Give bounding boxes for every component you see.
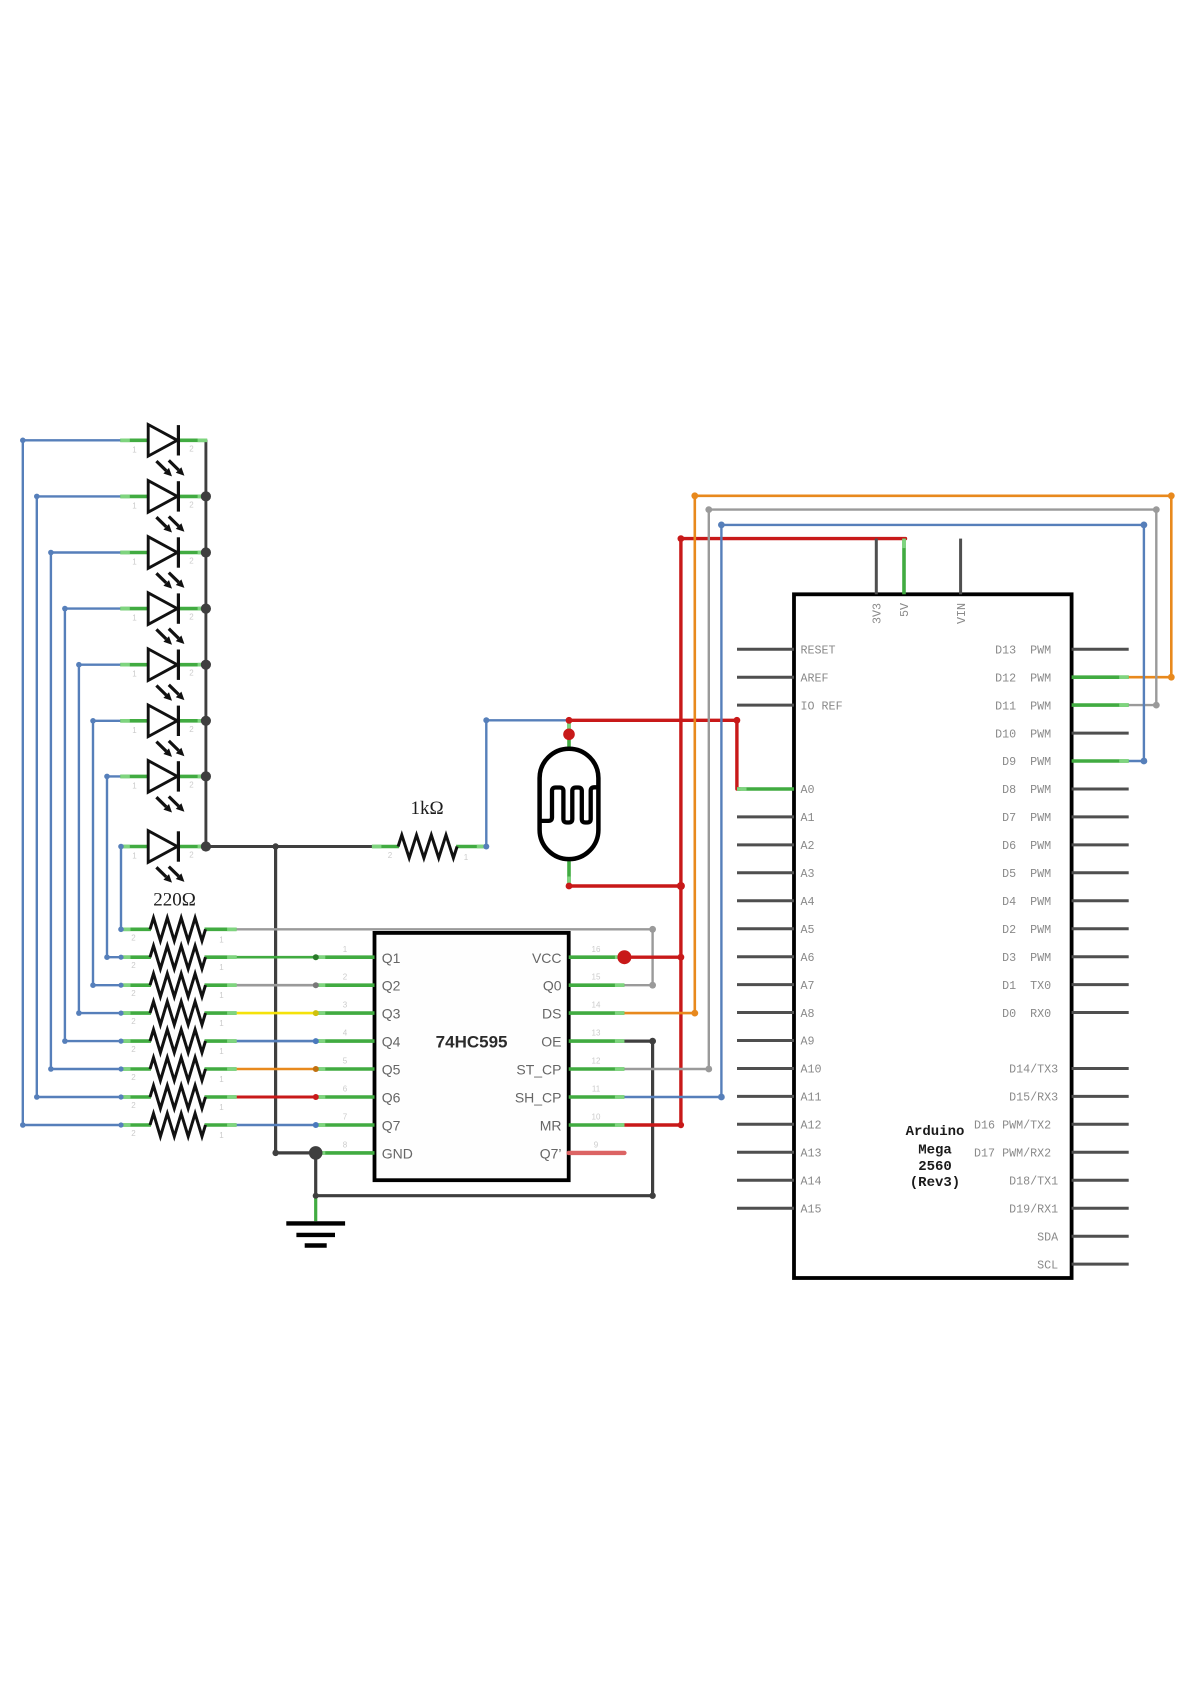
svg-text:3V3: 3V3	[871, 603, 885, 624]
svg-text:A4: A4	[801, 895, 815, 909]
wire LDR top to A0 (red)	[569, 720, 740, 789]
svg-text:D16 PWM/TX2: D16 PWM/TX2	[974, 1119, 1058, 1133]
svg-text:RESET: RESET	[801, 643, 836, 657]
svg-text:1: 1	[132, 726, 137, 735]
svg-text:1: 1	[132, 781, 137, 790]
svg-text:16: 16	[592, 945, 601, 954]
svg-text:2: 2	[343, 973, 348, 982]
arduino pin A11	[737, 1091, 822, 1105]
arduino pin D17 PWM/RX2	[974, 1147, 1129, 1161]
svg-text:1: 1	[219, 935, 224, 944]
svg-text:A2: A2	[801, 839, 815, 853]
svg-text:D0 RX0: D0 RX0	[1002, 1007, 1058, 1021]
wire LED8 anode to R1 (blue)	[119, 847, 122, 930]
arduino pin A1	[737, 811, 815, 825]
wire OE to ground net (dark)	[316, 1041, 653, 1196]
svg-text:2: 2	[131, 1017, 136, 1026]
pin 14 DS	[542, 1001, 624, 1022]
svg-text:2: 2	[388, 851, 393, 860]
wire LED4 anode to R5 (blue)	[65, 609, 121, 1042]
wire 5V power net (red): 5V pin - VCC - MR - LDR bottom	[569, 539, 906, 1125]
svg-text:A13: A13	[801, 1147, 822, 1161]
arduino pin IO REF	[737, 699, 843, 713]
svg-text:D6 PWM: D6 PWM	[1002, 839, 1058, 853]
svg-text:SDA: SDA	[1037, 1230, 1059, 1244]
arduino pin A8	[737, 1007, 815, 1021]
svg-text:Mega: Mega	[918, 1143, 952, 1159]
svg-text:D17 PWM/RX2: D17 PWM/RX2	[974, 1147, 1058, 1161]
resistor R3 220Ω	[121, 974, 237, 1001]
arduino pin A4	[737, 895, 815, 909]
svg-text:OE: OE	[541, 1034, 561, 1050]
svg-text:Q3: Q3	[382, 1006, 401, 1022]
arduino pin A5	[737, 923, 815, 937]
svg-text:1: 1	[343, 945, 348, 954]
svg-text:5: 5	[343, 1057, 348, 1066]
svg-text:9: 9	[594, 1140, 599, 1149]
svg-text:1: 1	[219, 1019, 224, 1028]
wire R5 to Q4 (#567fba)	[237, 1040, 316, 1043]
svg-text:1: 1	[464, 853, 469, 862]
arduino pin D2 PWM	[1002, 923, 1129, 937]
arduino pin D12 PWM	[995, 671, 1129, 685]
junction dots: OE net	[649, 1038, 656, 1199]
arduino pin D14/TX3	[1009, 1063, 1129, 1077]
arduino pin A9	[737, 1035, 815, 1049]
svg-text:1: 1	[132, 852, 137, 861]
pin 11 SH_CP	[515, 1085, 625, 1106]
svg-text:A0: A0	[801, 783, 815, 797]
wire R3 to Q2 (#9a9a9a)	[237, 984, 316, 987]
svg-text:2: 2	[131, 989, 136, 998]
svg-text:SCL: SCL	[1037, 1258, 1058, 1272]
wire ST_CP to D11 (gray)	[624, 510, 1156, 1069]
arduino pin VIN	[955, 539, 969, 624]
svg-text:1: 1	[219, 963, 224, 972]
svg-text:13: 13	[592, 1029, 601, 1038]
svg-text:1: 1	[219, 1047, 224, 1056]
svg-text:A10: A10	[801, 1063, 822, 1077]
resistor R7 220Ω	[121, 1086, 237, 1113]
svg-text:VCC: VCC	[532, 950, 562, 966]
arduino pin D13 PWM	[995, 643, 1129, 657]
arduino pin D3 PWM	[1002, 951, 1129, 965]
arduino pin D7 PWM	[1002, 811, 1129, 825]
junction dots: Q0 gray net	[649, 926, 656, 989]
svg-text:1: 1	[219, 991, 224, 1000]
arduino pin D4 PWM	[1002, 895, 1129, 909]
arduino pin D19/RX1	[1009, 1202, 1129, 1216]
svg-text:Q0: Q0	[543, 978, 562, 994]
svg-text:IO REF: IO REF	[801, 699, 843, 713]
svg-text:A5: A5	[801, 923, 815, 937]
arduino pin RESET	[737, 643, 836, 657]
svg-text:D13 PWM: D13 PWM	[995, 643, 1058, 657]
pin 8 GND	[316, 1140, 413, 1161]
svg-text:D4 PWM: D4 PWM	[1002, 895, 1058, 909]
svg-text:GND: GND	[382, 1145, 413, 1161]
svg-text:D1 TX0: D1 TX0	[1002, 979, 1058, 993]
svg-text:1: 1	[219, 1075, 224, 1084]
junction dots: LED cathode bus	[201, 491, 211, 851]
svg-text:A1: A1	[801, 811, 815, 825]
arduino pin D5 PWM	[1002, 867, 1129, 881]
wire LED6 anode to R3 (blue)	[93, 721, 121, 985]
svg-text:2: 2	[189, 500, 194, 509]
svg-text:2: 2	[131, 961, 136, 970]
pin 13 OE	[541, 1029, 624, 1050]
pin 4 Q4	[316, 1029, 401, 1050]
wire R8 to Q7 (#567fba)	[237, 1124, 316, 1127]
module Arduino Mega 2560 (Rev3)	[794, 594, 1072, 1278]
LED4	[120, 593, 207, 645]
arduino pin D1 TX0	[1002, 979, 1129, 993]
svg-text:D10 PWM: D10 PWM	[995, 727, 1058, 741]
svg-text:4: 4	[343, 1029, 348, 1038]
junction dots: orange DS-D12 net	[691, 492, 1174, 1016]
svg-text:2560: 2560	[918, 1159, 952, 1175]
resistor R6 220Ω	[121, 1058, 237, 1085]
svg-text:1: 1	[132, 614, 137, 623]
svg-text:8: 8	[343, 1140, 348, 1149]
svg-text:10: 10	[592, 1113, 601, 1122]
resistor R1 220Ω	[121, 918, 237, 945]
resistor R2 220Ω	[121, 946, 237, 972]
junction dot: GND node	[272, 843, 322, 1198]
arduino pin A6	[737, 951, 815, 965]
LED6	[120, 705, 207, 757]
arduino pin A14	[737, 1175, 822, 1189]
value label 220Ω	[153, 890, 196, 911]
svg-text:SH_CP: SH_CP	[515, 1090, 562, 1106]
svg-text:1kΩ: 1kΩ	[410, 798, 443, 819]
svg-text:D19/RX1: D19/RX1	[1009, 1202, 1058, 1216]
svg-text:220Ω: 220Ω	[153, 890, 196, 911]
junction dots: gray ST_CP-D11 net	[705, 506, 1159, 1072]
arduino pin SDA	[1037, 1230, 1129, 1244]
resistor 1kΩ	[372, 835, 486, 862]
wire GND down to ground node	[314, 1153, 317, 1196]
arduino pin 3V3	[871, 539, 885, 624]
pin 12 ST_CP	[516, 1057, 624, 1078]
svg-text:2: 2	[189, 557, 194, 566]
LED5	[120, 649, 207, 701]
wire LED cathode bus (dark)	[206, 440, 373, 846]
resistor R4 220Ω	[121, 1002, 237, 1029]
wire R4 to Q3 (#f5e20a)	[237, 1012, 316, 1015]
arduino pin A10	[737, 1063, 822, 1077]
svg-text:D5 PWM: D5 PWM	[1002, 867, 1058, 881]
svg-text:2: 2	[189, 780, 194, 789]
wire LED5 anode to R4 (blue)	[79, 665, 121, 1013]
LED7	[120, 761, 207, 813]
svg-text:1: 1	[219, 1103, 224, 1112]
LED2	[120, 481, 207, 533]
svg-text:2: 2	[131, 1129, 136, 1138]
svg-text:14: 14	[592, 1001, 601, 1010]
svg-text:MR: MR	[540, 1118, 562, 1134]
svg-text:D14/TX3: D14/TX3	[1009, 1063, 1058, 1077]
arduino pin AREF	[737, 671, 829, 685]
svg-text:A7: A7	[801, 979, 815, 993]
svg-text:D2 PWM: D2 PWM	[1002, 923, 1058, 937]
svg-text:A9: A9	[801, 1035, 815, 1049]
svg-text:VIN: VIN	[955, 603, 969, 624]
pin 9 Q7'	[540, 1140, 625, 1161]
wire LED7 anode to R2 (blue)	[107, 776, 121, 957]
svg-text:2: 2	[131, 1073, 136, 1082]
junction dots: blue SH_CP-D9 net	[718, 522, 1147, 1101]
svg-text:1: 1	[132, 445, 137, 454]
pin 3 Q3	[316, 1001, 401, 1022]
svg-text:A3: A3	[801, 867, 815, 881]
svg-text:ST_CP: ST_CP	[516, 1062, 561, 1078]
svg-text:D11 PWM: D11 PWM	[995, 699, 1058, 713]
svg-text:12: 12	[592, 1057, 601, 1066]
svg-text:2: 2	[189, 669, 194, 678]
svg-text:Q5: Q5	[382, 1062, 401, 1078]
pin 5 Q5	[316, 1057, 401, 1078]
resistor R8 220Ω	[121, 1114, 237, 1141]
arduino pin D16 PWM/TX2	[974, 1119, 1129, 1133]
arduino pin D15/RX3	[1009, 1091, 1129, 1105]
arduino pin D18/TX1	[1009, 1175, 1129, 1189]
wire LED3 anode to R6 (blue)	[51, 553, 121, 1070]
svg-text:D15/RX3: D15/RX3	[1009, 1091, 1058, 1105]
svg-text:3: 3	[343, 1001, 348, 1010]
pin 2 Q2	[316, 973, 401, 994]
pin 6 Q6	[316, 1085, 401, 1106]
value label 1kΩ	[410, 798, 443, 819]
svg-text:AREF: AREF	[801, 671, 829, 685]
arduino pin A15	[737, 1202, 822, 1216]
wire LED1 anode to R8 (blue)	[23, 440, 121, 1125]
arduino pin A12	[737, 1119, 822, 1133]
svg-text:2: 2	[131, 1101, 136, 1110]
svg-text:D18/TX1: D18/TX1	[1009, 1175, 1058, 1189]
wire R7 to Q6 (#c81919)	[237, 1096, 316, 1099]
junction dots: blue LED wires	[20, 438, 124, 1128]
arduino pin A13	[737, 1147, 822, 1161]
pin 16 VCC	[532, 945, 624, 966]
arduino pin A3	[737, 867, 815, 881]
wire DS to D12 (orange)	[624, 496, 1171, 1013]
svg-text:5V: 5V	[898, 603, 912, 617]
svg-text:1: 1	[219, 1131, 224, 1140]
junction dots: red 5V net (VCC big dot)	[617, 535, 685, 1128]
wire cathode-bus branch to GND (dark)	[276, 847, 316, 1153]
svg-text:A8: A8	[801, 1007, 815, 1021]
arduino pin D0 RX0	[1002, 1007, 1129, 1021]
svg-text:6: 6	[343, 1085, 348, 1094]
junction dots: blue 1k corner	[483, 717, 489, 849]
wire R1 to Q0 (gray)	[237, 929, 653, 985]
arduino pin 5V	[898, 539, 912, 617]
arduino pin D8 PWM	[1002, 783, 1129, 797]
arduino pin D11 PWM	[995, 699, 1129, 713]
arduino pin A7	[737, 979, 815, 993]
svg-text:2: 2	[189, 725, 194, 734]
svg-text:D12 PWM: D12 PWM	[995, 671, 1058, 685]
arduino pin D10 PWM	[995, 727, 1129, 741]
svg-text:15: 15	[592, 973, 601, 982]
svg-text:Q7’: Q7’	[540, 1145, 562, 1161]
svg-text:A14: A14	[801, 1175, 822, 1189]
pin 1 Q1	[316, 945, 401, 966]
svg-text:Q2: Q2	[382, 978, 401, 994]
svg-text:11: 11	[592, 1085, 601, 1094]
svg-text:1: 1	[132, 670, 137, 679]
svg-text:(Rev3): (Rev3)	[910, 1175, 960, 1191]
LED3	[120, 537, 207, 589]
LED1	[120, 425, 207, 477]
ground symbol	[286, 1196, 345, 1246]
svg-text:D3 PWM: D3 PWM	[1002, 951, 1058, 965]
arduino pin D6 PWM	[1002, 839, 1129, 853]
svg-text:2: 2	[189, 851, 194, 860]
svg-text:Q4: Q4	[382, 1034, 401, 1050]
svg-text:Q7: Q7	[382, 1118, 401, 1134]
wire LED2 anode to R7 (blue)	[37, 496, 121, 1097]
svg-text:DS: DS	[542, 1006, 561, 1022]
svg-text:D7 PWM: D7 PWM	[1002, 811, 1058, 825]
arduino pin A2	[737, 839, 815, 853]
pin 10 MR	[540, 1113, 625, 1134]
IC 74HC595	[375, 933, 569, 1180]
arduino pin A0	[737, 783, 815, 797]
wire 1k resistor to LDR top (blue)	[486, 720, 569, 846]
svg-text:D8 PWM: D8 PWM	[1002, 783, 1058, 797]
svg-text:2: 2	[131, 1045, 136, 1054]
svg-text:Q1: Q1	[382, 950, 401, 966]
resistor R5 220Ω	[121, 1030, 237, 1057]
LED8	[120, 831, 207, 883]
svg-text:Arduino: Arduino	[906, 1124, 965, 1140]
svg-text:74HC595: 74HC595	[436, 1033, 508, 1052]
pin 7 Q7	[316, 1113, 401, 1134]
wire R6 to Q5 (#e8891d)	[237, 1068, 316, 1071]
svg-text:D9 PWM: D9 PWM	[1002, 755, 1058, 769]
svg-text:2: 2	[131, 933, 136, 942]
svg-text:A6: A6	[801, 951, 815, 965]
svg-text:2: 2	[189, 613, 194, 622]
junction dots: LDR red nodes	[563, 717, 740, 890]
junction dots: chip left pins	[313, 954, 319, 1128]
svg-text:A11: A11	[801, 1091, 822, 1105]
svg-text:2: 2	[189, 444, 194, 453]
svg-text:7: 7	[343, 1113, 348, 1122]
svg-text:A15: A15	[801, 1202, 822, 1216]
pin 15 Q0	[543, 973, 625, 994]
LDR photoresistor	[540, 720, 599, 886]
arduino pin D9 PWM	[1002, 755, 1129, 769]
arduino pin SCL	[1037, 1258, 1129, 1272]
svg-text:1: 1	[132, 558, 137, 567]
svg-text:1: 1	[132, 501, 137, 510]
svg-text:A12: A12	[801, 1119, 822, 1133]
wire SH_CP to D9 (blue)	[624, 525, 1144, 1097]
svg-text:Q6: Q6	[382, 1090, 401, 1106]
wire R2 to Q1 (#41ab41)	[237, 956, 316, 959]
